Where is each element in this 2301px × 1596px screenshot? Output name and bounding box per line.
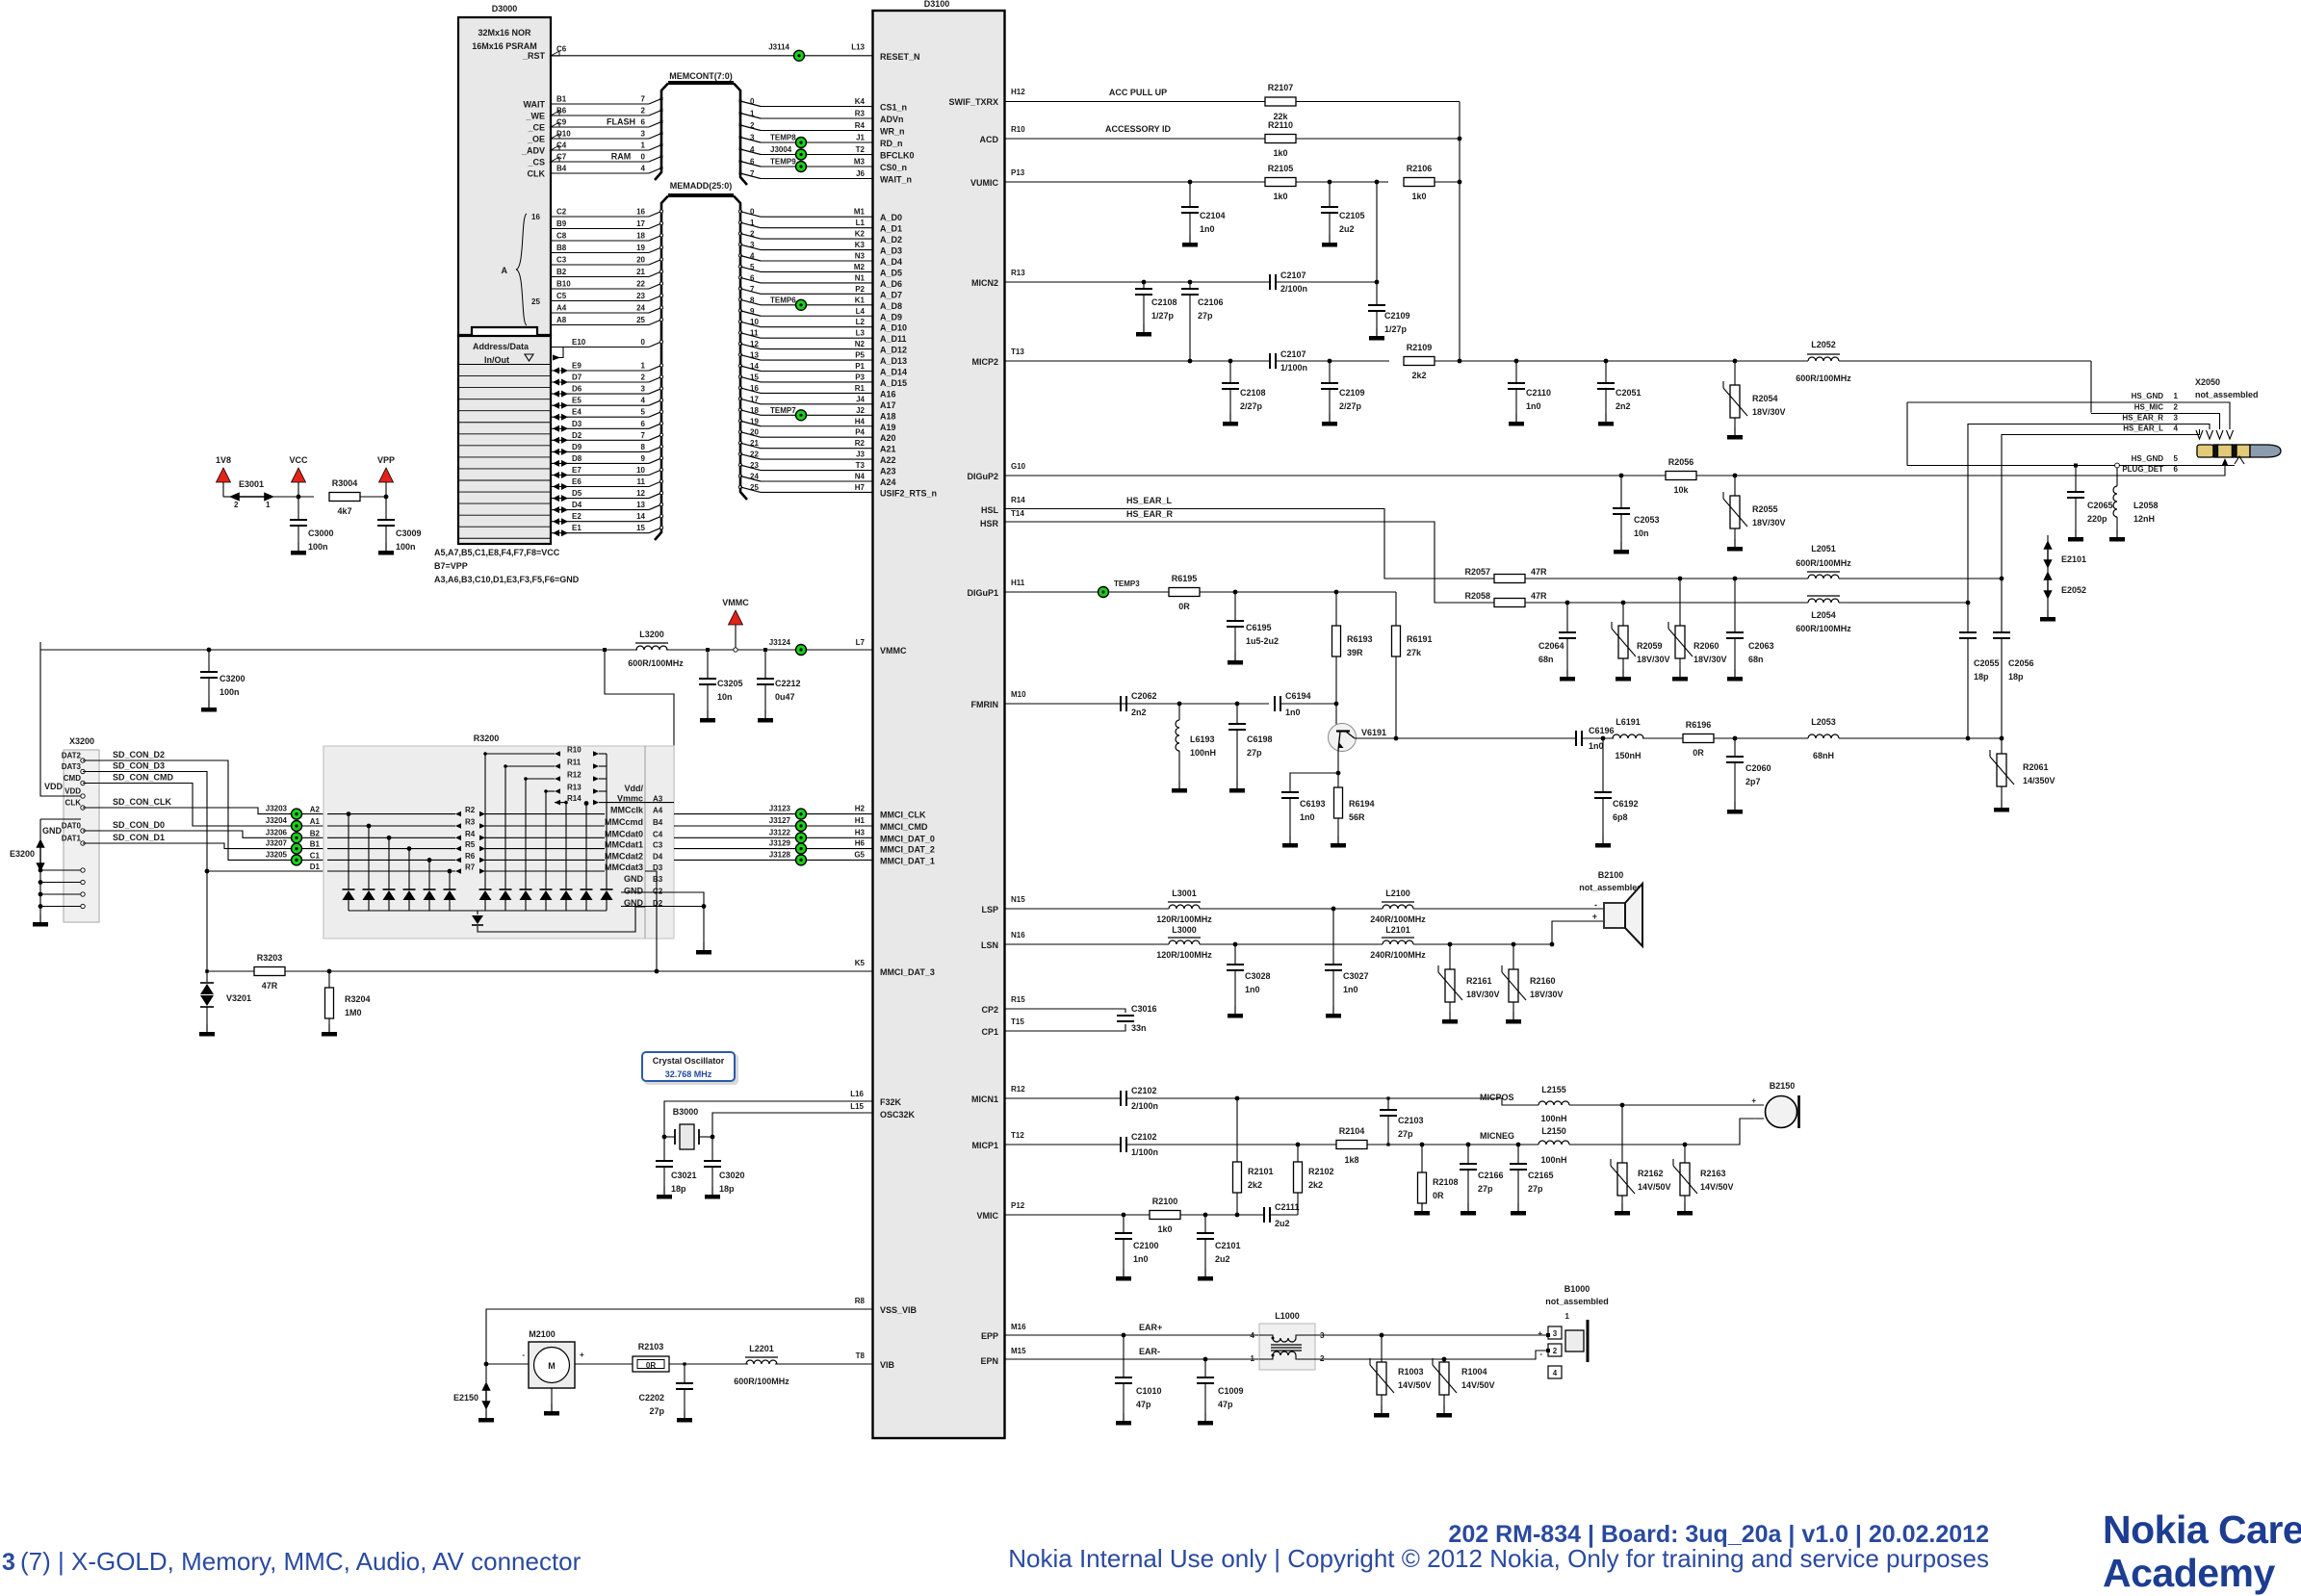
D3000 address pin C8 wire to MEMADD bit 18 (551, 240, 649, 242)
svg-text:L2101: L2101 (1385, 925, 1410, 935)
D3000 data pin D4 wire to MEMADD bit 13 (553, 506, 559, 513)
svg-text:A_D13: A_D13 (880, 356, 907, 366)
wire net MICP2 (1005, 360, 1269, 362)
svg-text:16Mx16 PSRAM: 16Mx16 PSRAM (472, 41, 537, 51)
svg-text:CMD: CMD (64, 774, 81, 783)
resistor R2107 22k (1265, 97, 1296, 106)
svg-text:2k2: 2k2 (1411, 371, 1426, 380)
diode ESD D8 (504, 766, 506, 889)
D3000 data pin E6 wire to MEMADD bit 11 (553, 483, 559, 490)
svg-text:L15: L15 (850, 1102, 864, 1111)
svg-text:R2104: R2104 (1339, 1126, 1365, 1136)
svg-text:L2100: L2100 (1385, 888, 1410, 898)
wire net MMCI_DAT_1 (674, 859, 872, 861)
svg-text:(7) | X-GOLD, Memory, MMC, A: (7) | X-GOLD, Memory, MMC, Audio, AV con… (20, 1547, 582, 1576)
svg-text:14: 14 (636, 512, 645, 521)
svg-text:33n: 33n (1131, 1023, 1147, 1033)
svg-text:14V/50V: 14V/50V (1638, 1182, 1671, 1192)
svg-text:B6: B6 (556, 107, 567, 116)
D3000 address pin A8 wire to MEMADD bit 25 (551, 324, 649, 326)
capacitor C2055 18p series to FM line (1967, 603, 1969, 632)
wire R3200 Vdd/Vmmc row (607, 802, 674, 804)
svg-text:VUMIC: VUMIC (970, 178, 999, 188)
svg-text:R2059: R2059 (1637, 641, 1663, 651)
R3200 internal resistor R12 (526, 778, 555, 780)
coupling E3200 (39, 819, 41, 839)
svg-text:39R: 39R (1347, 648, 1363, 657)
svg-text:T3: T3 (856, 461, 866, 470)
svg-text:R2110: R2110 (1268, 120, 1293, 130)
IC D3100 X-GOLD baseband block (873, 11, 1005, 1438)
wire LSN run (1200, 943, 1383, 945)
svg-text:3: 3 (750, 134, 755, 142)
svg-text:3: 3 (1553, 1329, 1558, 1338)
svg-text:R14: R14 (1011, 496, 1025, 504)
svg-text:1V8: 1V8 (216, 455, 231, 465)
svg-text:7: 7 (641, 431, 646, 440)
capacitor C2102 1/100n series (1121, 1137, 1126, 1152)
svg-text:K4: K4 (855, 97, 866, 106)
wire R2103 to L2201 (669, 1363, 748, 1365)
MEMCONT bit 6 wire to D3100 pin CS0_n (M3) (739, 160, 742, 163)
wire net HS_EAR_R pin 3 (1968, 425, 2210, 430)
svg-text:R10: R10 (567, 746, 582, 755)
svg-text:C2102: C2102 (1131, 1132, 1157, 1142)
svg-text:C2107: C2107 (1280, 349, 1306, 359)
diode ESD D12 (585, 804, 587, 890)
svg-text:M2: M2 (854, 263, 866, 271)
resistor R6193 39R (1334, 590, 1339, 595)
svg-text:27p: 27p (1528, 1184, 1543, 1194)
svg-text:HS_GND: HS_GND (2132, 454, 2164, 463)
svg-text:B1000: B1000 (1564, 1284, 1590, 1294)
svg-text:C6196: C6196 (1589, 726, 1615, 735)
via J3122 on MMCI_DAT_0 (796, 833, 807, 843)
svg-text:-: - (1539, 1350, 1542, 1358)
svg-text:J3114: J3114 (768, 43, 789, 52)
via J3114 on RESET_N (794, 50, 805, 61)
svg-text:N3: N3 (855, 252, 866, 261)
X3200 GND pin wire (40, 818, 81, 820)
svg-text:D4: D4 (572, 501, 582, 509)
svg-text:not_assembled: not_assembled (2195, 390, 2259, 399)
svg-text:A_D14: A_D14 (880, 368, 907, 377)
capacitor C3205 10n (706, 648, 710, 652)
svg-text:2n2: 2n2 (1131, 708, 1147, 717)
wire FM line to L2053 (1714, 737, 1808, 739)
svg-text:MMCdat3: MMCdat3 (605, 862, 643, 872)
svg-text:_ADV: _ADV (521, 146, 545, 156)
svg-text:GND: GND (42, 826, 63, 836)
svg-text:10n: 10n (1634, 528, 1649, 538)
svg-text:J3127: J3127 (769, 816, 791, 825)
svg-text:C2062: C2062 (1131, 691, 1157, 701)
svg-text:R2101: R2101 (1248, 1167, 1274, 1176)
svg-text:P12: P12 (1011, 1201, 1025, 1210)
svg-text:L1000: L1000 (1275, 1311, 1300, 1321)
svg-text:25: 25 (531, 297, 540, 306)
capacitor C2065 220p (2074, 464, 2078, 468)
wire net VSS_VIB to motor minus (486, 1309, 872, 1364)
capacitor C2212 0u47 (763, 648, 767, 652)
svg-text:A21: A21 (880, 445, 896, 454)
svg-text:12: 12 (750, 340, 759, 348)
svg-text:_CE: _CE (527, 123, 545, 133)
svg-text:E2101: E2101 (2061, 554, 2086, 564)
svg-text:FLASH: FLASH (607, 117, 635, 127)
wire R3200 pull-up rail vertical (606, 754, 608, 803)
svg-text:27p: 27p (1198, 311, 1213, 321)
svg-text:1k0: 1k0 (1411, 192, 1426, 201)
wire HS_EAR_R run (1525, 602, 1808, 604)
wire to R6196 (1642, 737, 1683, 739)
svg-text:10n: 10n (717, 692, 733, 702)
resistor R3203 47R (254, 967, 285, 976)
svg-text:47p: 47p (1218, 1400, 1233, 1409)
inductor L2100 240R/100MHz (1383, 905, 1413, 909)
svg-text:C2108: C2108 (1151, 297, 1177, 307)
svg-text:13: 13 (750, 351, 759, 360)
svg-text:E4: E4 (572, 408, 582, 417)
svg-text:M1: M1 (854, 208, 866, 217)
svg-text:C2106: C2106 (1198, 297, 1224, 307)
svg-text:C6: C6 (556, 45, 567, 54)
svg-text:OSC32K: OSC32K (880, 1110, 916, 1120)
svg-text:18p: 18p (671, 1184, 686, 1194)
svg-text:2/27p: 2/27p (1339, 401, 1362, 411)
svg-text:J3204: J3204 (266, 816, 288, 825)
svg-text:D2: D2 (572, 431, 582, 440)
svg-text:C2165: C2165 (1528, 1171, 1554, 1180)
svg-text:27p: 27p (1478, 1184, 1493, 1194)
svg-text:MMCI_DAT_0: MMCI_DAT_0 (880, 834, 935, 843)
svg-text:EAR-: EAR- (1139, 1347, 1160, 1356)
svg-text:R6195: R6195 (1172, 574, 1198, 583)
svg-text:R3204: R3204 (345, 994, 371, 1004)
coupling E2052 (2045, 573, 2052, 598)
svg-text:47p: 47p (1136, 1400, 1151, 1409)
inductor L2053 68nH (1808, 734, 1839, 738)
svg-text:0R: 0R (1178, 602, 1190, 611)
svg-text:1/27p: 1/27p (1151, 311, 1175, 321)
svg-text:SD_CON_D0: SD_CON_D0 (113, 820, 165, 830)
R3200 internal resistor R2 (327, 813, 455, 815)
svg-text:E2052: E2052 (2061, 585, 2086, 595)
svg-text:B4: B4 (556, 165, 567, 173)
svg-text:J2: J2 (856, 406, 865, 415)
svg-text:SD_CON_CLK: SD_CON_CLK (113, 797, 172, 807)
svg-text:3: 3 (641, 385, 646, 394)
svg-text:R6191: R6191 (1407, 634, 1433, 644)
svg-text:17: 17 (750, 395, 759, 403)
svg-text:C2: C2 (556, 208, 567, 217)
svg-text:R10: R10 (1011, 125, 1025, 134)
wire net FMRIN (1005, 703, 1269, 705)
svg-text:MMCI_DAT_2: MMCI_DAT_2 (880, 845, 935, 855)
svg-text:EPP: EPP (981, 1331, 998, 1341)
wire net MMCI_DAT_2 (674, 848, 872, 850)
wire net SD_CON_D0 (83, 831, 323, 837)
svg-text:A19: A19 (880, 423, 896, 432)
svg-text:C2065: C2065 (2087, 501, 2113, 510)
svg-text:14V/50V: 14V/50V (1461, 1380, 1495, 1390)
svg-text:1n0: 1n0 (1200, 224, 1215, 234)
inductor L6193 100nH (1177, 702, 1182, 707)
svg-text:MICPOS: MICPOS (1480, 1093, 1514, 1102)
coupling E3001 (223, 496, 231, 498)
varistor R1004 14V/50V (1443, 1359, 1445, 1362)
wire collector to C6196 (1355, 737, 1575, 739)
svg-text:HS_EAR_R: HS_EAR_R (2122, 414, 2163, 423)
via test point on CS0_n (796, 162, 807, 172)
D3000 data pin E4 wire to MEMADD bit 5 (553, 414, 559, 421)
svg-text:CP1: CP1 (981, 1027, 998, 1037)
svg-text:D10: D10 (556, 130, 571, 139)
capacitor C2166 27p (1466, 1143, 1471, 1147)
svg-text:not_assembled: not_assembled (1579, 883, 1642, 892)
svg-text:L2053: L2053 (1811, 717, 1836, 727)
svg-text:T12: T12 (1011, 1131, 1024, 1140)
D3000 address pin B9 wire to MEMADD bit 17 (551, 228, 649, 230)
svg-text:18V/30V: 18V/30V (1530, 990, 1564, 999)
svg-text:DIGuP1: DIGuP1 (967, 588, 998, 598)
svg-text:N15: N15 (1011, 895, 1025, 904)
svg-text:0: 0 (641, 338, 646, 347)
D3000 data pin D3 wire to MEMADD bit 6 (553, 425, 559, 432)
varistor R2161 18V/30V (1449, 944, 1451, 969)
svg-text:4: 4 (1251, 1331, 1255, 1340)
D3000 address pin B10 wire to MEMADD bit 22 (551, 288, 649, 290)
svg-text:B2150: B2150 (1770, 1081, 1796, 1091)
svg-text:ADVn: ADVn (880, 115, 904, 124)
svg-text:A_D10: A_D10 (880, 323, 907, 333)
diode ESD D13 (606, 803, 608, 889)
svg-text:R2056: R2056 (1668, 457, 1694, 467)
MEMADD bit 25 wire to D3100 (H7) (738, 485, 741, 488)
wire net HS_GND pin 1 (1907, 402, 2230, 429)
svg-text:14: 14 (750, 362, 759, 371)
svg-text:4k7: 4k7 (337, 506, 351, 516)
svg-text:J3128: J3128 (769, 850, 791, 859)
svg-text:MICN2: MICN2 (971, 278, 998, 288)
svg-text:2: 2 (2174, 403, 2179, 412)
svg-text:+: + (1538, 1329, 1542, 1338)
diode ESD D2 (368, 826, 370, 889)
svg-text:L6193: L6193 (1190, 734, 1215, 744)
svg-text:2: 2 (750, 121, 755, 130)
capacitor C2101 2u2 (1203, 1213, 1208, 1218)
svg-text:B7=VPP: B7=VPP (434, 561, 468, 571)
diode ESD D6 (449, 871, 451, 889)
wire MICN2 after C2107 (1277, 281, 1377, 283)
svg-text:9: 9 (750, 307, 755, 316)
capacitor C3027 1n0 (1332, 909, 1334, 965)
MEMADD bit 6 wire to D3100 (N1) (738, 276, 741, 279)
svg-text:15: 15 (636, 524, 645, 532)
svg-text:DAT2: DAT2 (62, 752, 82, 760)
MEMADD bit 4 wire to D3100 (N3) (738, 254, 741, 257)
D3000 data pin D9 wire to MEMADD bit 8 (553, 449, 559, 455)
svg-text:C2105: C2105 (1339, 211, 1365, 220)
capacitor C6192 6p8 (1601, 736, 1606, 741)
svg-text:E7: E7 (572, 466, 582, 475)
svg-text:C2109: C2109 (1339, 388, 1365, 398)
capacitor C2202 27p (683, 1362, 685, 1365)
svg-text:R2061: R2061 (2023, 762, 2049, 772)
svg-text:23: 23 (750, 461, 759, 470)
svg-text:WR_n: WR_n (880, 127, 905, 137)
svg-text:SD_CON_D3: SD_CON_D3 (113, 761, 165, 771)
svg-text:TEMP9: TEMP9 (770, 158, 796, 167)
wire LSN to speaker + (1413, 943, 1552, 945)
svg-text:2u2: 2u2 (1339, 224, 1355, 234)
svg-text:C2100: C2100 (1133, 1241, 1159, 1250)
inductor L2052 600R/100MHz (1808, 357, 1839, 361)
svg-text:1n0: 1n0 (1343, 985, 1358, 994)
wire SD_CON_D3 to R3203 branch (205, 869, 210, 874)
svg-text:M2100: M2100 (529, 1329, 556, 1339)
svg-text:T13: T13 (1011, 348, 1024, 356)
capacitor C2104 1n0 (1188, 180, 1193, 185)
ground R3200 GND pins (703, 942, 705, 950)
svg-text:R3203: R3203 (257, 953, 283, 963)
svg-text:0R: 0R (1433, 1191, 1444, 1200)
svg-text:18p: 18p (719, 1184, 735, 1194)
svg-text:E9: E9 (572, 362, 582, 371)
svg-text:R2107: R2107 (1268, 83, 1294, 92)
svg-text:1k0: 1k0 (1273, 192, 1287, 201)
svg-text:R7: R7 (465, 863, 476, 872)
svg-text:7: 7 (750, 169, 755, 178)
svg-text:240R/100MHz: 240R/100MHz (1370, 950, 1426, 960)
svg-text:G5: G5 (854, 850, 865, 859)
coupling E2101 (2047, 535, 2049, 543)
capacitor C2108 2/27p (1228, 359, 1233, 364)
svg-text:R6193: R6193 (1347, 634, 1373, 644)
wire MICP2 to headset mic line (1435, 360, 1808, 362)
svg-text:VMMC: VMMC (880, 646, 907, 656)
svg-text:R2102: R2102 (1308, 1167, 1334, 1176)
MEMADD bit 14 wire to D3100 (P1) (738, 364, 741, 367)
svg-text:R1004: R1004 (1461, 1367, 1487, 1377)
R3200 internal resistor R6 (327, 859, 455, 861)
svg-text:T8: T8 (856, 1351, 866, 1360)
resistor R2101 2k2 vertical (1235, 1213, 1240, 1218)
svg-text:not_assembled: not_assembled (1545, 1297, 1609, 1306)
svg-text:15: 15 (750, 373, 759, 381)
inductor L6191 150nH (1613, 734, 1643, 738)
capacitor C3016 33n series (1117, 1016, 1134, 1021)
svg-text:D3000: D3000 (492, 4, 518, 13)
capacitor C2062 2n2 series (1121, 696, 1126, 711)
svg-text:Vdd/: Vdd/ (625, 784, 644, 793)
svg-text:A17: A17 (880, 400, 896, 410)
capacitor C2063 68n (1733, 577, 1738, 581)
svg-text:0: 0 (750, 208, 755, 217)
svg-text:2: 2 (234, 501, 239, 509)
via TEMP6 on A_D8 (796, 299, 807, 310)
svg-text:10k: 10k (1673, 485, 1689, 495)
svg-text:32.768 MHz: 32.768 MHz (665, 1069, 712, 1079)
capacitor C2109 2/27p (1328, 359, 1332, 364)
wire FMRIN to transistor base (1281, 703, 1336, 705)
svg-text:2k2: 2k2 (1308, 1180, 1323, 1190)
capacitor C3028 1n0 (1234, 944, 1236, 965)
inductor L2150 100nH (1538, 1141, 1569, 1145)
svg-text:K2: K2 (855, 230, 866, 239)
svg-text:2p7: 2p7 (1745, 777, 1761, 786)
svg-text:D3: D3 (572, 420, 582, 428)
wire C2105/C2109 vertical (1376, 182, 1378, 282)
svg-text:2: 2 (1553, 1347, 1558, 1355)
D3000 address pin A4 wire to MEMADD bit 24 (551, 312, 649, 314)
svg-text:C2: C2 (653, 888, 663, 896)
resistor R6196 0R (1683, 734, 1714, 743)
svg-text:21: 21 (750, 439, 759, 448)
wire net SD_CON_CLK (83, 808, 323, 814)
svg-text:G10: G10 (1011, 462, 1026, 471)
svg-text:C6198: C6198 (1247, 734, 1273, 744)
svg-text:12: 12 (636, 489, 645, 498)
svg-text:1k0: 1k0 (1157, 1224, 1172, 1234)
svg-text:1: 1 (641, 142, 646, 150)
svg-text:J3205: J3205 (266, 850, 288, 859)
svg-text:VMIC: VMIC (977, 1211, 999, 1221)
svg-text:A_D3: A_D3 (880, 246, 902, 256)
svg-text:HSR: HSR (980, 519, 999, 528)
svg-text:C2051: C2051 (1616, 388, 1642, 398)
varistor R2163 14V/50V (1684, 1145, 1686, 1163)
svg-text:22: 22 (636, 280, 645, 289)
svg-text:6: 6 (2174, 465, 2179, 474)
svg-text:6: 6 (641, 420, 646, 428)
svg-text:C3: C3 (653, 841, 663, 850)
via J3128 on MMCI_DAT_1 (796, 855, 807, 865)
svg-text:HS_EAR_L: HS_EAR_L (1126, 496, 1173, 505)
IC D3000 Address/Data In/Out block (458, 336, 551, 544)
svg-text:47R: 47R (262, 981, 278, 991)
svg-text:L1: L1 (856, 219, 866, 227)
svg-text:19: 19 (636, 244, 645, 252)
capacitor C1010 47p (1122, 1333, 1126, 1338)
svg-text:L2201: L2201 (749, 1344, 774, 1353)
svg-text:C2111: C2111 (1275, 1202, 1300, 1212)
svg-text:RD_n: RD_n (880, 139, 903, 148)
D3000 data pin D7 wire to MEMADD bit 2 (553, 379, 559, 386)
svg-text:1/100n: 1/100n (1280, 363, 1307, 373)
svg-text:B1: B1 (310, 840, 321, 849)
wire net VDD from VMMC rail down to X3200 (40, 642, 81, 796)
svg-text:MICNEG: MICNEG (1480, 1131, 1514, 1141)
svg-text:DAT3: DAT3 (62, 762, 82, 771)
varistor R1003 14V/50V (1381, 1335, 1383, 1362)
svg-text:J3122: J3122 (769, 828, 791, 837)
junction VUMIC to C2109 branch (1375, 180, 1380, 185)
svg-text:68nH: 68nH (1813, 751, 1834, 760)
varistor R2160 18V/30V (1512, 944, 1514, 969)
svg-text:18p: 18p (2008, 672, 2024, 682)
wire net VMMC main run (40, 649, 637, 651)
svg-text:A2: A2 (310, 806, 321, 814)
svg-text:WAIT: WAIT (524, 100, 546, 110)
MEMADD bit 11 wire to D3100 (L3) (738, 331, 741, 334)
D3000 data pin E9 wire to MEMADD bit 1 (553, 368, 559, 374)
D3000 address pin C5 wire to MEMADD bit 23 (551, 300, 649, 302)
svg-text:R2054: R2054 (1752, 394, 1778, 403)
svg-text:HSL: HSL (981, 505, 999, 515)
svg-text:3: 3 (2, 1549, 15, 1576)
capacitor C2108 1/27p (1142, 280, 1147, 285)
